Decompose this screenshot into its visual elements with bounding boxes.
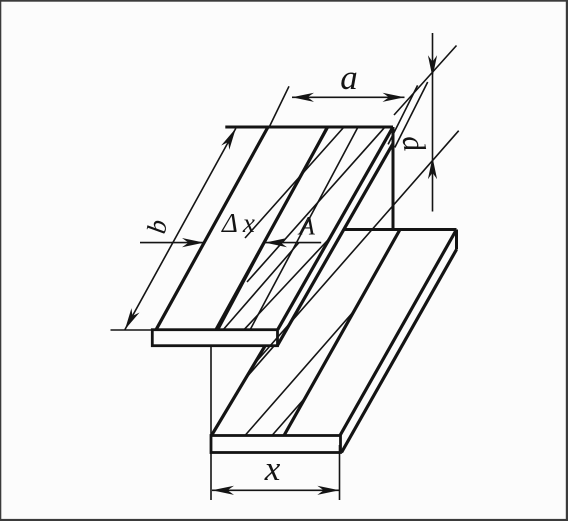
x arrow left	[212, 486, 234, 495]
top plate: rear right vertical projection line	[392, 127, 395, 230]
top plate: right long edge C2-C3	[278, 127, 393, 330]
svg-text:x: x	[264, 449, 281, 488]
svg-text:b: b	[141, 217, 173, 236]
a dimension line	[292, 96, 405, 98]
top face thin line hugging #B	[219, 128, 327, 330]
a arrow left	[292, 93, 314, 102]
bottom face hatch to overlap boundary	[245, 311, 354, 436]
svg-text:а: а	[340, 58, 358, 97]
top plate: left long edge (#A)	[156, 127, 268, 330]
bottom plate: left long edge	[212, 346, 266, 436]
top face hatch 45 deg lower	[244, 238, 330, 330]
bottom plate: rear top edge	[345, 228, 457, 231]
top plate: overlap boundary (#B)	[216, 127, 328, 330]
a arrow right	[383, 93, 405, 102]
top face thin line parallel to edges	[250, 127, 358, 330]
svg-text:A: A	[297, 212, 315, 241]
d arrow lower pointing up	[428, 157, 437, 179]
b arrow top	[221, 126, 240, 150]
a extension left	[269, 86, 289, 127]
d upper extension slant from top rear corner	[394, 46, 457, 116]
bottom plate: rear right vertical thickness edge	[455, 230, 458, 250]
delta-x dimension right arrow line with A leader	[265, 242, 321, 244]
top face hatch 45 deg long	[247, 127, 385, 282]
top plate: rear top edge with b-extension	[225, 126, 393, 129]
bottom face hatch short	[272, 397, 306, 435]
b arrow bottom	[121, 308, 140, 332]
border frame	[0, 0, 568, 2]
top plate: front face band	[152, 330, 277, 346]
svg-text:Δx: Δx	[221, 208, 255, 238]
bottom plate: overlap boundary (#C)	[284, 230, 400, 436]
bottom plate: right long top edge	[340, 230, 457, 436]
bottom plate: right side bottom edge	[342, 250, 457, 453]
a extension right E2	[395, 82, 428, 148]
x extension right vertical	[339, 445, 341, 500]
bottom plate: front face band	[211, 436, 341, 453]
x arrow right	[317, 486, 339, 495]
a extension right E1	[388, 85, 418, 144]
x extension left vertical	[210, 346, 212, 500]
d arrow upper pointing down	[428, 55, 437, 77]
x dimension line	[212, 489, 339, 491]
top face hatch 45 deg short	[245, 127, 344, 238]
delta-x dimension left arrow line	[140, 242, 204, 244]
bottom face hatch from left edge hidden under band	[246, 346, 274, 378]
d dimension vertical line	[432, 33, 434, 212]
top plate: side face bottom edge	[277, 144, 393, 346]
b dimension line	[125, 128, 236, 329]
top face hatch 45 deg to corner of overlap boundary	[223, 243, 299, 331]
top plate: band top extension line for b	[111, 329, 153, 331]
bottom face long 45 hatch through d lower extension	[253, 131, 458, 365]
